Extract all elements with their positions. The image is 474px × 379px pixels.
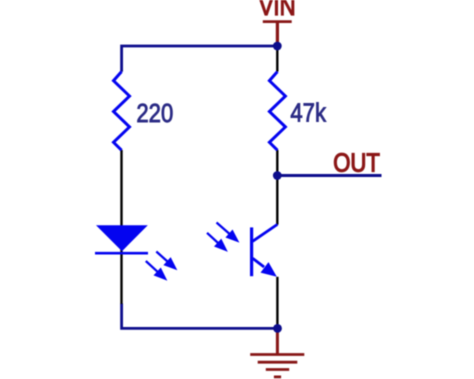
svg-text:OUT: OUT (333, 149, 380, 178)
svg-text:47k: 47k (290, 99, 326, 128)
svg-text:220: 220 (136, 99, 173, 128)
svg-text:VIN: VIN (259, 0, 296, 22)
